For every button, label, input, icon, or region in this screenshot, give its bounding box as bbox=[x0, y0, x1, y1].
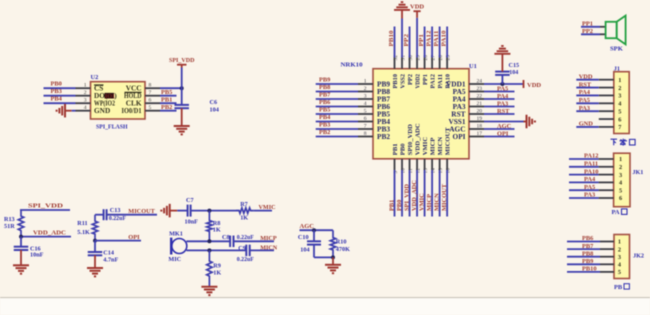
designator C7 bbox=[186, 197, 194, 204]
net label VMIC (rotated) bbox=[418, 193, 425, 211]
svg-text:1: 1 bbox=[84, 83, 87, 89]
wire VDD2 to VDD bbox=[416, 11, 418, 57]
resistor R9 bbox=[207, 250, 212, 286]
connector JK2 body bbox=[614, 235, 630, 279]
connector J1 body bbox=[614, 72, 629, 134]
designator R9 bbox=[213, 263, 221, 270]
svg-text:PB4: PB4 bbox=[51, 96, 63, 103]
U1 pin 31 (VSS2) bbox=[400, 55, 406, 69]
designator R11 bbox=[77, 220, 87, 227]
net label PB0 bbox=[51, 81, 62, 88]
capacitor C13 bbox=[104, 209, 107, 220]
U1 pin 17 (OPI) bbox=[469, 131, 484, 137]
svg-text:C8: C8 bbox=[222, 234, 230, 241]
wire PB4 to U2 pin3 bbox=[44, 102, 76, 104]
U1 pin 26 (PA11) bbox=[438, 55, 444, 69]
svg-text:PA3: PA3 bbox=[579, 105, 590, 112]
wire PA4 bbox=[484, 98, 515, 100]
svg-text:8: 8 bbox=[364, 131, 367, 137]
wire PB0 to U2 pin1 bbox=[44, 87, 76, 89]
svg-text:VDD: VDD bbox=[579, 73, 593, 80]
U1 pin 29 (VDD2) bbox=[415, 55, 421, 69]
J1 pin 7 bbox=[599, 124, 622, 131]
svg-text:22: 22 bbox=[477, 93, 483, 99]
IC U2 SPI flash body bbox=[91, 82, 146, 119]
junction R13-C16 bbox=[19, 235, 23, 239]
net label PB6 bbox=[319, 99, 331, 106]
svg-text:PP2: PP2 bbox=[407, 73, 414, 85]
power port SPI_VDD bbox=[169, 57, 195, 68]
J1 pin 3 bbox=[599, 93, 622, 100]
svg-text:C15: C15 bbox=[509, 62, 520, 69]
svg-text:20: 20 bbox=[477, 108, 483, 114]
U1 pin 19 (VSS1) bbox=[469, 116, 484, 122]
JK2 pin 3 bbox=[600, 254, 621, 261]
svg-text:51R: 51R bbox=[4, 223, 15, 230]
svg-text:21: 21 bbox=[477, 101, 483, 107]
capacitor C9 bbox=[246, 245, 249, 257]
svg-text:5: 5 bbox=[149, 105, 152, 111]
svg-text:3: 3 bbox=[618, 93, 621, 100]
svg-text:1K: 1K bbox=[213, 270, 221, 277]
ground below C6 bbox=[174, 126, 190, 134]
net label MICOUT bbox=[128, 208, 155, 215]
svg-text:SPI_VDD: SPI_VDD bbox=[28, 203, 63, 210]
value 5.1K bbox=[77, 229, 90, 236]
U1 pin name AGC bbox=[449, 124, 465, 133]
wire PB10 top stub bbox=[394, 27, 396, 58]
wire JK1 PA10 bbox=[569, 174, 599, 176]
JK1 pin 5 bbox=[599, 187, 623, 194]
svg-text:PA11: PA11 bbox=[433, 31, 440, 47]
U1 pin name PB10 (rotated) bbox=[392, 73, 399, 88]
wire C10 bottom lead bbox=[313, 245, 315, 258]
capacitor C7 bbox=[188, 205, 191, 217]
wire PB5 stub bbox=[316, 113, 358, 115]
ground below C16 bbox=[13, 265, 29, 273]
wire C6 to ground bbox=[181, 108, 183, 126]
U1 pin name PB0 (rotated) bbox=[399, 143, 406, 155]
ground below C14 bbox=[87, 268, 103, 276]
U2 pin 2 bbox=[76, 90, 91, 96]
wire J1 PA5 bbox=[576, 102, 599, 104]
value 1K (R9) bbox=[213, 270, 221, 277]
svg-text:PA10: PA10 bbox=[584, 168, 598, 175]
svg-text:JK1: JK1 bbox=[632, 169, 643, 176]
net label PA10 (rotated) bbox=[441, 31, 448, 47]
junction R8 bottom bbox=[207, 239, 211, 243]
designator J1 bbox=[614, 65, 620, 72]
net label PB8 bbox=[319, 84, 330, 91]
net label PA3 JK1 bbox=[584, 192, 595, 199]
U2 pin name CLK bbox=[126, 99, 142, 108]
svg-text:PA10: PA10 bbox=[445, 73, 452, 88]
net label PB7 JK2 bbox=[582, 243, 594, 250]
U2 pin 7 bbox=[145, 90, 160, 96]
wire PP1 top stub bbox=[424, 27, 426, 58]
part name NRK10 bbox=[341, 61, 363, 68]
label MIC bbox=[168, 256, 181, 263]
svg-text:6: 6 bbox=[618, 116, 621, 123]
U1 pin 22 (PA4) bbox=[469, 93, 484, 99]
wire JK2 PB10 bbox=[567, 271, 600, 273]
net label PP2 (rotated) bbox=[403, 34, 410, 47]
svg-text:5: 5 bbox=[618, 108, 621, 115]
svg-text:7: 7 bbox=[149, 90, 152, 96]
wire PA5 bbox=[484, 91, 515, 93]
svg-text:104: 104 bbox=[509, 70, 518, 76]
svg-text:PB1: PB1 bbox=[392, 143, 399, 155]
svg-text:1K: 1K bbox=[240, 214, 248, 221]
wire PB2 stub bbox=[316, 136, 358, 138]
net label PA11 (rotated) bbox=[433, 31, 440, 47]
net label PB4 bbox=[319, 114, 331, 121]
U2 pin name DO(IO1) highlighted bbox=[94, 91, 117, 100]
wire RST bbox=[484, 113, 515, 115]
U1 pin name SPI0_VDD (rotated) bbox=[407, 124, 414, 155]
U1 pin 7 (PB3) bbox=[358, 123, 373, 129]
U1 pin 1 (PB9) bbox=[358, 78, 373, 84]
value 51R bbox=[4, 223, 15, 230]
net label VDD_ADC (rotated) bbox=[411, 180, 418, 211]
U1 pin 4 (PB6) bbox=[358, 101, 373, 107]
wire JK2 PB9 bbox=[567, 263, 600, 265]
U1 pin name PA4 bbox=[453, 94, 466, 103]
svg-text:PA5: PA5 bbox=[497, 85, 508, 92]
svg-text:PA10: PA10 bbox=[441, 31, 448, 47]
svg-text:5: 5 bbox=[364, 108, 367, 114]
U1 pin name VMIC (rotated) bbox=[422, 137, 429, 156]
svg-text:MICOUT: MICOUT bbox=[128, 208, 155, 215]
wire SPI_VDD rail vertical bbox=[181, 68, 183, 105]
U2 pin 3 bbox=[76, 98, 91, 104]
wire VSS1 to ground bbox=[484, 121, 524, 123]
wire VDD_ADC bbox=[20, 236, 71, 238]
svg-text:2: 2 bbox=[618, 85, 621, 92]
net label OPI (R11) bbox=[128, 234, 140, 241]
svg-text:PA4: PA4 bbox=[579, 89, 591, 96]
svg-text:MICOUT: MICOUT bbox=[445, 127, 452, 155]
value 0.22uF (C8) bbox=[237, 235, 254, 241]
svg-text:SPI_VDD: SPI_VDD bbox=[403, 184, 410, 211]
wire C9 to MICN bbox=[250, 249, 274, 251]
connector JK1 body bbox=[614, 153, 630, 207]
U2 pin name GND bbox=[94, 106, 110, 115]
wire JK2 PB8 bbox=[567, 256, 600, 258]
wire U2 pin8 VCC to SPI_VDD rail bbox=[160, 87, 182, 89]
net label PB4 bbox=[51, 96, 63, 103]
U1 pin 11 (SPI0_VDD) bbox=[408, 159, 414, 174]
svg-text:PB10: PB10 bbox=[388, 31, 395, 47]
net label PB5 bbox=[161, 89, 172, 96]
net label PP1 (rotated) bbox=[418, 34, 425, 47]
U1 pin name PB3 bbox=[377, 124, 390, 133]
svg-text:PA12: PA12 bbox=[426, 31, 433, 47]
wire C13 to MICOUT bbox=[107, 214, 157, 216]
svg-text:VDD_ADC: VDD_ADC bbox=[33, 230, 66, 237]
wire C16 to ground bbox=[20, 250, 22, 265]
resistor R10 bbox=[330, 230, 335, 257]
svg-text:1: 1 bbox=[364, 78, 367, 84]
wire JK1 PA3 bbox=[569, 197, 599, 199]
svg-text:SPI_FLASH: SPI_FLASH bbox=[96, 123, 128, 130]
capacitor C14 bbox=[88, 252, 103, 255]
designator C9 bbox=[238, 245, 246, 252]
microphone MK1 bbox=[171, 238, 187, 255]
U1 pin name PP1 (rotated) bbox=[422, 74, 429, 85]
U2 pin 6 bbox=[145, 98, 160, 104]
svg-text:PB7: PB7 bbox=[319, 91, 331, 98]
U1 pin name PB4 bbox=[377, 117, 390, 126]
wire JK1 PA12 bbox=[569, 158, 599, 160]
svg-text:NRK10: NRK10 bbox=[341, 61, 363, 68]
wire PB3 to U2 pin2 bbox=[44, 95, 76, 97]
svg-text:4: 4 bbox=[84, 105, 87, 111]
svg-text:1: 1 bbox=[618, 77, 621, 84]
svg-text:PB8: PB8 bbox=[582, 250, 593, 257]
wire AGC bottom bbox=[314, 256, 333, 258]
svg-text:PA4: PA4 bbox=[497, 93, 509, 100]
net label SPI_VDD (R13) bbox=[28, 203, 63, 210]
wire J1 PA3 bbox=[576, 110, 599, 112]
designator C13 bbox=[110, 207, 121, 214]
designator C10 bbox=[298, 234, 309, 241]
resistor R7 bbox=[236, 208, 254, 213]
U1 pin 28 (PP1) bbox=[423, 55, 429, 69]
JK1 pin 3 bbox=[599, 172, 623, 179]
U1 pin name PA12 (rotated) bbox=[430, 73, 437, 88]
value 1K (R8) bbox=[213, 226, 221, 233]
wire PB6 stub bbox=[316, 106, 358, 108]
net label PB3 bbox=[319, 121, 330, 128]
value 1K (R7) bbox=[240, 214, 248, 221]
svg-text:5: 5 bbox=[619, 187, 622, 194]
wire J1 PA4 bbox=[576, 94, 599, 96]
svg-text:PA11: PA11 bbox=[584, 161, 598, 168]
U1 pin name VSS1 bbox=[448, 117, 465, 126]
svg-text:PA11: PA11 bbox=[437, 74, 444, 89]
U1 pin 25 (PA10) bbox=[446, 55, 452, 69]
svg-text:1: 1 bbox=[619, 156, 622, 163]
J1 pin 5 bbox=[599, 108, 622, 115]
ground at VSS1 bbox=[524, 115, 535, 129]
svg-text:1: 1 bbox=[618, 239, 621, 246]
net label MICN (rotated) bbox=[433, 193, 440, 211]
U1 pin 10 (PB0) bbox=[400, 159, 406, 174]
net label PB7 bbox=[319, 91, 331, 98]
designator SPK bbox=[610, 46, 624, 53]
net label PB5 bbox=[319, 106, 330, 113]
U1 pin name VDD1 bbox=[446, 79, 466, 88]
U1 pin name PB8 bbox=[377, 87, 390, 96]
designator U1 bbox=[469, 63, 477, 70]
value 0.22uF (C9) bbox=[237, 257, 254, 263]
svg-text:PA4: PA4 bbox=[584, 176, 596, 183]
wire MICP bottom stub bbox=[431, 170, 433, 217]
svg-text:PB6: PB6 bbox=[319, 99, 331, 106]
label SPI_FLASH bbox=[96, 123, 128, 130]
speaker SPK bbox=[606, 16, 626, 45]
wire U2 pin4 to ground bbox=[72, 110, 76, 112]
designator R10 bbox=[336, 238, 347, 245]
power ground above C15 bbox=[494, 46, 510, 54]
wire JK1 PA5 bbox=[569, 189, 599, 191]
resistor R8 bbox=[207, 211, 212, 242]
svg-text:5: 5 bbox=[618, 269, 621, 276]
svg-text:PB9: PB9 bbox=[319, 76, 330, 83]
wire PA3 bbox=[484, 106, 515, 108]
U2 pin name CS with overline bbox=[94, 84, 104, 93]
svg-text:VDD_ADC: VDD_ADC bbox=[411, 180, 418, 211]
U2 pin name VCC bbox=[126, 84, 142, 93]
svg-text:IO0/D1: IO0/D1 bbox=[122, 106, 142, 115]
U2 pin name WP(IO2) bbox=[94, 99, 115, 108]
net label PB1 (rotated) bbox=[388, 200, 395, 211]
wire C14 to ground bbox=[94, 255, 96, 268]
svg-text:C9: C9 bbox=[238, 245, 246, 252]
U1 pin name PB2 bbox=[377, 132, 390, 141]
designator R13 bbox=[4, 216, 15, 223]
svg-text:8: 8 bbox=[149, 83, 152, 89]
capacitor C16 bbox=[14, 247, 29, 250]
wire OPI (R11) bbox=[95, 240, 141, 242]
svg-text:R11: R11 bbox=[77, 220, 87, 227]
net label PA4 bbox=[497, 93, 509, 100]
wire PB9 stub bbox=[316, 83, 358, 85]
net label VMIC bbox=[259, 204, 276, 211]
svg-text:0.22uF: 0.22uF bbox=[237, 257, 254, 263]
wire SPI_VDD bottom stub bbox=[409, 170, 411, 217]
capacitor C8 bbox=[230, 236, 233, 248]
svg-text:3: 3 bbox=[84, 98, 87, 104]
net label PA5 bbox=[497, 85, 508, 92]
svg-text:MICN: MICN bbox=[260, 244, 277, 251]
power port VDD top bbox=[410, 4, 424, 12]
value 0.22uF (C13) bbox=[109, 216, 126, 222]
value 10nF (C7) bbox=[185, 218, 199, 225]
wire C10 top lead bbox=[313, 230, 315, 241]
U2 pin 8 bbox=[145, 83, 160, 89]
wire J1 VDD bbox=[576, 79, 599, 81]
svg-text:104: 104 bbox=[210, 107, 219, 114]
designator R8 bbox=[213, 220, 221, 227]
wire U2 pin5 bbox=[160, 110, 177, 112]
svg-text:PB10: PB10 bbox=[582, 266, 597, 273]
U1 pin 21 (PA3) bbox=[469, 101, 484, 107]
svg-text:3: 3 bbox=[364, 93, 367, 99]
capacitor C6 bbox=[174, 105, 189, 108]
svg-text:AGC: AGC bbox=[497, 123, 512, 130]
JK2 pin 4 bbox=[600, 262, 622, 269]
U1 pin 30 (PP2) bbox=[408, 55, 414, 69]
svg-text:1K: 1K bbox=[213, 226, 221, 233]
wire JK2 PB7 bbox=[567, 248, 600, 250]
svg-text:VDD: VDD bbox=[410, 4, 424, 11]
svg-text:PB: PB bbox=[614, 284, 623, 291]
U1 pin name MICOUT (rotated) bbox=[445, 127, 452, 155]
wire C15 to power ground bbox=[501, 54, 503, 72]
U1 pin 2 (PB8) bbox=[358, 86, 373, 92]
svg-text:PB9: PB9 bbox=[582, 258, 593, 265]
designator C8 bbox=[222, 234, 230, 241]
wire mic bottom to C9 bbox=[186, 249, 246, 251]
svg-text:PB3: PB3 bbox=[319, 121, 330, 128]
designator R7 bbox=[240, 201, 248, 208]
svg-text:PB7: PB7 bbox=[582, 243, 594, 250]
svg-text:PB1: PB1 bbox=[388, 200, 395, 211]
value C6 104 bbox=[210, 99, 219, 113]
ground at C7 bbox=[161, 204, 177, 218]
label PA kou (PA port) bbox=[612, 209, 628, 216]
svg-text:SPI_VDD: SPI_VDD bbox=[169, 57, 195, 64]
wire VMIC bottom stub bbox=[424, 170, 426, 217]
wire PA10 top stub bbox=[446, 27, 448, 58]
svg-text:MIC: MIC bbox=[168, 256, 181, 263]
U2 pin name IO0/D1 bbox=[122, 106, 142, 115]
svg-text:MICN: MICN bbox=[433, 193, 440, 211]
junction U2 VCC rail bbox=[180, 86, 184, 90]
svg-text:0.22uF: 0.22uF bbox=[109, 216, 126, 222]
net label PP2 bbox=[582, 28, 593, 35]
svg-text:4: 4 bbox=[364, 101, 367, 107]
net label PB9 JK2 bbox=[582, 258, 593, 265]
junction C10 top bbox=[312, 228, 316, 232]
junction R9 top bbox=[207, 248, 211, 252]
wire JK1 PA11 bbox=[569, 166, 599, 168]
ground at U2 pin4 bbox=[57, 104, 72, 118]
svg-text:C10: C10 bbox=[298, 234, 309, 241]
ground below R9 bbox=[201, 287, 217, 295]
wire JK1 PA4 bbox=[569, 181, 599, 183]
wire PB7 stub bbox=[316, 98, 358, 100]
net label PA5 J1 bbox=[579, 97, 590, 104]
svg-text:VMIC: VMIC bbox=[418, 193, 425, 211]
svg-text:SPK: SPK bbox=[610, 46, 624, 53]
designator U2 bbox=[91, 74, 99, 81]
wire R13 to C16 bbox=[20, 237, 22, 247]
svg-text:PB6: PB6 bbox=[582, 235, 594, 242]
label xiazaikou (download port) bbox=[611, 139, 636, 146]
U1 pin 27 (PA12) bbox=[431, 55, 437, 69]
designator MK1 bbox=[169, 230, 183, 237]
svg-text:C13: C13 bbox=[110, 207, 121, 214]
net label VDD_ADC bbox=[33, 230, 66, 237]
net label PB6 JK2 bbox=[582, 235, 594, 242]
net label PA4 J1 bbox=[579, 89, 591, 96]
svg-text:PB10: PB10 bbox=[392, 73, 399, 88]
U1 pin 20 (RST) bbox=[469, 108, 484, 114]
wire MICN bottom stub bbox=[439, 170, 441, 217]
net label AGC bbox=[497, 123, 512, 130]
junction R8 top bbox=[207, 209, 211, 213]
svg-text:104: 104 bbox=[300, 247, 309, 254]
wire AGC top bbox=[300, 229, 334, 231]
net label RST bbox=[497, 108, 510, 115]
junction R11-C14-OPI bbox=[93, 239, 97, 243]
U1 pin name MICN (rotated) bbox=[437, 137, 444, 156]
svg-text:PB5: PB5 bbox=[319, 106, 330, 113]
U1 pin 24 (VDD1) bbox=[469, 78, 484, 84]
wire PB4 stub bbox=[316, 121, 358, 123]
value C15 104 bbox=[509, 62, 520, 76]
capacitor C10 bbox=[307, 241, 321, 244]
wire U2 pin7 bbox=[160, 95, 177, 97]
designator JK2 bbox=[633, 253, 644, 260]
svg-text:PP2: PP2 bbox=[403, 34, 410, 47]
svg-text:PB1: PB1 bbox=[161, 97, 172, 104]
U1 pin name PB7 bbox=[377, 94, 390, 103]
svg-text:PA12: PA12 bbox=[430, 73, 437, 88]
